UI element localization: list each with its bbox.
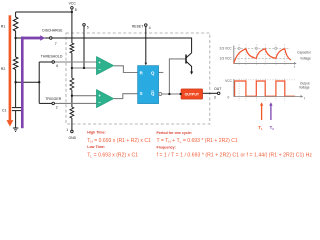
svg-text:8: 8	[75, 8, 77, 12]
svg-text:6: 6	[56, 64, 58, 68]
svg-text:TL = 0.693 x (R2) x C1: TL = 0.693 x (R2) x C1	[87, 152, 138, 158]
svg-text:Voltage: Voltage	[300, 56, 311, 60]
svg-text:RESET: RESET	[132, 24, 143, 28]
svg-text:Period for one cycle:: Period for one cycle:	[157, 131, 193, 135]
svg-text:C1: C1	[2, 109, 7, 113]
svg-text:5: 5	[87, 26, 89, 30]
svg-text:Q: Q	[151, 91, 155, 96]
svg-text:Frequency:: Frequency:	[157, 146, 176, 150]
svg-text:2: 2	[56, 105, 58, 109]
svg-text:f = 1 / T = 1 / 0.693 * (R1 +: f = 1 / T = 1 / 0.693 * (R1 + 2R2) C1 or…	[157, 152, 313, 158]
svg-text:TH = 0.693 x (R1 + R2) x C1: TH = 0.693 x (R1 + R2) x C1	[87, 138, 151, 144]
svg-text:VCC: VCC	[225, 79, 232, 83]
svg-text:3: 3	[214, 95, 216, 99]
svg-text:High Time:: High Time:	[87, 131, 106, 135]
svg-text:T2: T2	[270, 125, 275, 131]
svg-text:OUTPUT: OUTPUT	[185, 92, 200, 96]
svg-text:7: 7	[55, 42, 57, 46]
svg-text:Capacitor: Capacitor	[297, 50, 312, 54]
svg-text:t: t	[294, 65, 295, 69]
svg-text:TRIGGER: TRIGGER	[45, 97, 61, 101]
svg-text:GND: GND	[69, 136, 77, 140]
svg-text:Low Time:: Low Time:	[87, 145, 105, 149]
svg-text:R1: R1	[1, 25, 6, 29]
svg-text:Voltage: Voltage	[299, 86, 310, 90]
svg-text:R2: R2	[1, 67, 6, 71]
svg-text:t: t	[304, 97, 305, 101]
svg-text:1/3 VCC: 1/3 VCC	[220, 57, 233, 61]
svg-text:4: 4	[149, 26, 151, 30]
svg-text:2/3 VCC: 2/3 VCC	[220, 47, 233, 51]
svg-text:DISCHARGE: DISCHARGE	[42, 28, 63, 32]
svg-text:1: 1	[66, 128, 68, 132]
svg-text:THRESHOLD: THRESHOLD	[41, 55, 63, 59]
svg-text:VCC: VCC	[69, 2, 77, 6]
svg-text:S: S	[140, 91, 143, 96]
svg-text:T1: T1	[258, 125, 263, 131]
svg-text:Q: Q	[151, 70, 155, 75]
svg-text:OUT: OUT	[214, 87, 221, 91]
svg-text:0: 0	[228, 95, 230, 99]
svg-text:T = TH + TL = 0.693 * (R1 + 2R: T = TH + TL = 0.693 * (R1 + 2R2) C1	[157, 138, 238, 144]
